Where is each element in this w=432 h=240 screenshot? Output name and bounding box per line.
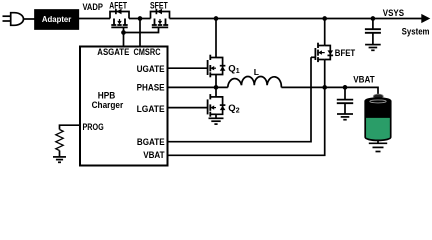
wire UGATE <box>168 67 208 69</box>
wire battery to ground <box>377 140 379 144</box>
ground battery <box>369 143 387 151</box>
node BFET source junction <box>322 85 327 90</box>
wire Q1 drain <box>215 19 217 58</box>
node Q1 drain junction <box>214 16 219 21</box>
svg-text:VBAT: VBAT <box>353 74 375 84</box>
pmos BFET <box>311 43 333 62</box>
svg-text:Adapter: Adapter <box>42 14 72 24</box>
wire PHASE <box>168 86 228 88</box>
svg-text:LGATE: LGATE <box>137 104 165 114</box>
capacitor VBAT <box>337 87 353 114</box>
node CMSRC junction <box>138 16 143 21</box>
svg-text:Charger: Charger <box>92 100 124 111</box>
IC U1 HPB Charger <box>80 47 168 166</box>
VSYS arrowhead <box>421 14 430 23</box>
ground VSYS cap <box>365 45 381 51</box>
wire LGATE <box>168 107 208 109</box>
wire SFET gate tie <box>124 27 159 32</box>
nmos Q2 <box>208 94 226 117</box>
ground VBAT cap <box>337 114 353 120</box>
wire BFET drain <box>324 19 326 46</box>
wire Q2 source <box>215 114 217 118</box>
svg-text:AFET: AFET <box>109 0 127 10</box>
adapter box <box>35 10 78 29</box>
wire BFET source <box>324 60 326 88</box>
wire BGATE <box>168 57 312 141</box>
svg-text:CMSRC: CMSRC <box>133 47 161 57</box>
node ASGATE junction <box>121 30 126 35</box>
capacitor VSYS <box>365 19 381 45</box>
inductor L <box>228 77 282 88</box>
resistor R PROG <box>56 130 63 157</box>
svg-text:PROG: PROG <box>83 122 104 132</box>
svg-text:System: System <box>402 26 430 36</box>
svg-text:VADP: VADP <box>82 2 103 12</box>
svg-text:L: L <box>254 67 259 77</box>
wire AFET gate to ASGATE pin <box>123 27 125 46</box>
wire SFET to VSYS arrow <box>170 18 423 20</box>
node phase junction <box>214 85 219 90</box>
label HPB Charger <box>92 91 124 112</box>
wire Q1 source <box>215 75 217 88</box>
AC plug <box>3 13 24 26</box>
ground Q2 <box>209 118 224 124</box>
svg-text:SFET: SFET <box>150 0 168 10</box>
svg-text:ASGATE: ASGATE <box>97 47 129 57</box>
ground PROG <box>53 157 66 162</box>
svg-text:UGATE: UGATE <box>137 64 165 74</box>
wire plug to adapter <box>24 18 35 20</box>
node BFET drain junction <box>322 16 327 21</box>
wire CMSRC to IC <box>139 19 141 47</box>
svg-text:Q1: Q1 <box>228 64 239 76</box>
node VSYS cap junction <box>371 16 376 21</box>
wire AFET to SFET <box>129 18 151 20</box>
node VBAT cap junction <box>343 85 348 90</box>
svg-text:PHASE: PHASE <box>137 82 165 92</box>
svg-text:VBAT: VBAT <box>143 150 165 160</box>
svg-text:VSYS: VSYS <box>383 8 404 18</box>
svg-text:Q2: Q2 <box>228 103 239 115</box>
wire PROG <box>60 125 81 129</box>
nmos Q1 <box>208 55 226 78</box>
svg-text:BFET: BFET <box>335 48 356 58</box>
wire VBAT rail <box>281 87 378 94</box>
svg-text:BGATE: BGATE <box>137 137 165 147</box>
wire Q2 drain <box>215 87 217 97</box>
wire VBAT sense <box>168 87 325 155</box>
pmos SFET <box>151 9 170 28</box>
pmos AFET <box>110 9 129 28</box>
battery <box>365 94 391 140</box>
wire adapter to AFET <box>78 18 110 20</box>
